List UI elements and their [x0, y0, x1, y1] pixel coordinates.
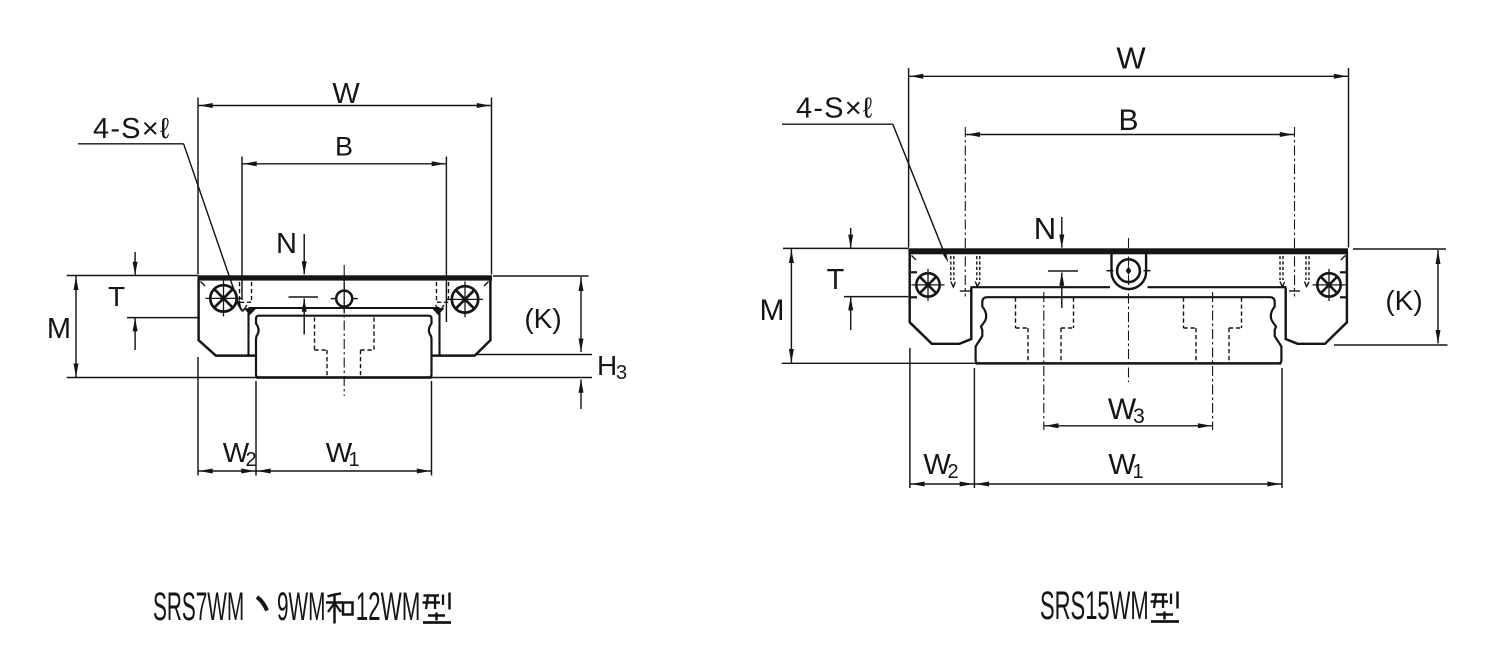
block underside gap line right part (right view): [1148, 286, 1287, 288]
wire: W dimension right extension line (right view): [1348, 68, 1350, 248]
svg-text:M: M: [760, 294, 785, 327]
rail bottom edge thick (left view): [256, 376, 432, 378]
svg-text:3: 3: [1133, 405, 1145, 428]
wire: W2 dimension line (right view): [910, 483, 975, 485]
node ideographic comma (left caption): [257, 597, 267, 611]
svg-text:4-S×ℓ: 4-S×ℓ: [93, 113, 170, 145]
rail outline (left view): [256, 316, 432, 378]
rail bolt hole left dashed (right view): [1028, 328, 1061, 363]
wire: W dimension line (left view): [198, 105, 492, 107]
ball circle right (left view): [447, 281, 483, 317]
wire: T bottom extension line at rail top level (right view): [844, 296, 908, 298]
block top-right corner chamfer mark (left view): [484, 282, 489, 287]
wire: M dimension line (right view): [790, 249, 792, 363]
grease nipple housing U shape (right view): [1112, 254, 1147, 289]
centerline vertical (left view): [343, 265, 345, 396]
wire: T dimension upper arrow line (right view): [850, 228, 852, 248]
wire: K top extension line (right view): [1353, 248, 1446, 250]
svg-text:1: 1: [348, 449, 359, 471]
svg-text:W: W: [1116, 41, 1146, 76]
wire: B dimension extension line right (left view): [445, 157, 447, 323]
svg-text:4-S×ℓ: 4-S×ℓ: [796, 93, 873, 125]
wire: N dimension line upper with arrow (left view): [303, 234, 305, 274]
grease hole circle (left view): [331, 275, 358, 314]
rail bolt hole dashed (left view): [327, 350, 361, 377]
wire: B dimension line (left view): [242, 163, 446, 165]
wire: block bottom extension line (right view): [1334, 344, 1448, 346]
rail bolt counterbore left dashed (right view): [1016, 298, 1074, 329]
wire: N dimension lower arrow line (right view): [1061, 273, 1063, 309]
wire: K dimension line (left view): [580, 277, 582, 352]
wire: N depth tick line (right view): [1048, 270, 1078, 272]
svg-text:T: T: [108, 281, 125, 312]
svg-text:(K): (K): [1385, 285, 1422, 316]
svg-text:N: N: [276, 228, 297, 260]
block top thick edge (right view carriage): [908, 248, 1348, 254]
rail bottom edge thick (right view): [976, 362, 1282, 364]
wire: W2 dimension line (left view): [198, 470, 256, 472]
svg-text:M: M: [47, 313, 71, 345]
block top-right corner chamfer mark (right view): [1341, 256, 1346, 261]
rail bolt counterbore dashed (left view): [315, 318, 375, 351]
wire: W dimension left extension line (right view): [908, 68, 910, 248]
wire: W1 right extension line (left view): [431, 381, 433, 476]
wire: top extension line for T and M (left view): [67, 275, 198, 277]
tapped hole S left dashed (right view): [951, 256, 980, 291]
block left leg inner edge (left view): [247, 308, 249, 355]
centerline vertical (right view): [1128, 238, 1130, 382]
node hanzi XING (left caption): [423, 593, 452, 623]
svg-text:SRS15WM: SRS15WM: [1040, 583, 1149, 628]
wire: W2/W1 middle extension line (right view): [973, 368, 975, 488]
node hanzi XING (right caption): [1151, 592, 1180, 622]
wire: T dimension upper arrow line (left view): [134, 252, 136, 275]
wire: bottom datum line left part (right view): [782, 362, 976, 364]
tapped hole S right dashed (left view): [436, 282, 449, 311]
wire: block bottom extension line (left view): [477, 354, 592, 356]
block outline right side with chamfer (right view carriage): [1286, 252, 1347, 344]
block top-left corner chamfer mark (left view): [201, 282, 206, 287]
wire: W1 dimension line (right view): [974, 483, 1282, 485]
svg-text:1: 1: [1132, 461, 1143, 483]
svg-text:(K): (K): [524, 303, 561, 334]
wire: T dimension lower arrow line (right view): [850, 297, 852, 330]
block outline right side with chamfer (left view carriage): [432, 279, 490, 356]
grease hole circle (right view): [1107, 259, 1151, 282]
rail bolt hole right dashed (right view): [1196, 328, 1229, 363]
wire: W3 left extension / hole centerline (right view): [1043, 292, 1045, 430]
node hanzi HE (left caption): [326, 594, 353, 624]
wire: W3 right extension / hole centerline (right view): [1212, 292, 1214, 430]
block outline left side with chamfer (right view carriage): [910, 252, 972, 344]
wire: W2/W1 left extension line (left view): [197, 357, 199, 476]
block underside gap line left part (right view): [970, 286, 1110, 288]
node caption SRS7WM 9WM 12WM (left view): [153, 584, 420, 629]
wire: W2/W1 middle extension line (left view): [255, 381, 257, 476]
ball circle right (right view): [1313, 269, 1346, 301]
wire: N dimension line lower with arrow (left view): [303, 299, 305, 335]
wire: 4-Sxl leader diagonal (right view): [893, 124, 946, 256]
wire: T bottom extension line at rail top level (left view): [127, 317, 198, 319]
wire: N depth tick line (left view): [289, 296, 319, 298]
tapped hole S right dashed (right view): [1280, 256, 1309, 291]
wire: N dimension upper arrow line (right view): [1061, 217, 1063, 248]
wire: T dimension lower arrow line (left view): [134, 318, 136, 350]
svg-text:3: 3: [616, 362, 627, 384]
ball contact mark right (left view): [432, 308, 445, 315]
wire: W dimension left extension line (left view): [197, 98, 199, 275]
wire: W3 dimension line (right view): [1044, 425, 1213, 427]
block top-left corner chamfer mark (right view): [912, 256, 917, 261]
svg-text:W: W: [332, 78, 360, 110]
ball contact mark left (left view): [244, 308, 257, 315]
rail bolt counterbore right dashed (right view): [1184, 298, 1242, 329]
ball housing notch lines left (right view): [911, 271, 917, 273]
wire: W2/W1 left extension line (right view): [909, 348, 911, 488]
svg-text:2: 2: [947, 461, 958, 483]
svg-text:B: B: [1118, 104, 1138, 137]
wire: H3 dimension lower arrow line (left view): [580, 380, 582, 410]
wire: top extension line for T and M (right view): [783, 247, 908, 249]
block outline left side with chamfer (left view carriage): [199, 279, 256, 356]
wire: K dimension line (right view): [1437, 250, 1439, 344]
ball circle left (right view): [912, 269, 945, 301]
wire: B dimension line (right view): [965, 134, 1294, 136]
wire: bottom datum line left part (left view): [67, 377, 256, 379]
wire: 4-Sxl leader horizontal (right view): [782, 123, 893, 125]
wire: W1 right extension line (right view): [1281, 368, 1283, 488]
wire: 4-Sxl leader diagonal (left view): [184, 144, 240, 306]
tapped hole S left dashed (left view): [239, 282, 252, 311]
ball housing notch lines right (right view): [1340, 271, 1346, 273]
wire: B extension line left / hole centerline (right view): [964, 127, 966, 297]
svg-text:T: T: [827, 264, 845, 296]
svg-text:N: N: [1034, 211, 1056, 246]
ball circle left (left view): [206, 280, 242, 316]
svg-text:12WM: 12WM: [356, 584, 421, 628]
svg-text:SRS7WM: SRS7WM: [153, 584, 244, 629]
wire: W1 dimension line (left view): [256, 470, 432, 472]
block right leg inner edge (left view): [438, 308, 440, 355]
svg-text:9WM: 9WM: [277, 584, 326, 629]
svg-text:B: B: [335, 132, 353, 162]
wire: W dimension line (right view): [909, 75, 1349, 77]
wire: B extension line right / hole centerline (right view): [1294, 127, 1296, 297]
wire: bottom datum line right part (left view): [432, 377, 593, 379]
svg-text:H: H: [597, 350, 617, 381]
wire: B dimension extension line left (left view): [241, 157, 243, 301]
svg-text:2: 2: [245, 449, 256, 471]
wire: K top extension line (left view): [493, 275, 589, 277]
block top thick edge (left view carriage): [198, 275, 493, 280]
rail outline (right view): [976, 297, 1282, 363]
wire: M dimension line (left view): [75, 276, 77, 377]
wire: 4-Sxl leader horizontal (left view): [78, 143, 184, 145]
block underside gap line (left view): [249, 307, 440, 309]
wire: W dimension right extension line (left view): [491, 98, 493, 275]
